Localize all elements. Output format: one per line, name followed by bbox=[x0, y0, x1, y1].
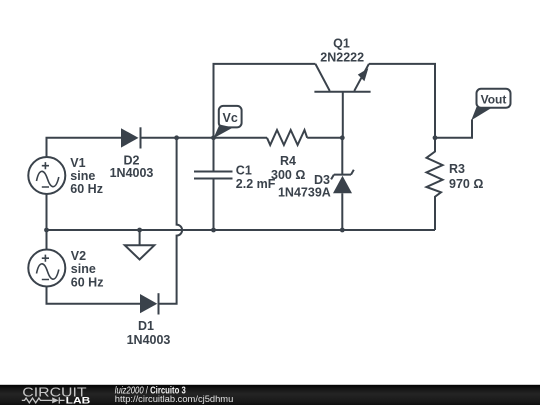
svg-text:60 Hz: 60 Hz bbox=[71, 276, 104, 290]
svg-text:1N4739A: 1N4739A bbox=[278, 186, 331, 200]
wire bottom rail bbox=[47, 229, 436, 231]
svg-text:60 Hz: 60 Hz bbox=[70, 182, 103, 196]
node dot D3 bottom bbox=[340, 228, 345, 233]
svg-text:LAB: LAB bbox=[66, 396, 91, 405]
Vc tag tail bbox=[214, 125, 234, 139]
resistor R3 bbox=[427, 138, 443, 230]
node dot Vc bbox=[211, 135, 216, 140]
svg-text:sine: sine bbox=[70, 169, 95, 183]
wire top rail right bbox=[369, 64, 435, 138]
transistor Q1 bbox=[314, 64, 370, 138]
svg-text:C1: C1 bbox=[236, 163, 252, 177]
node dot base bbox=[340, 135, 345, 140]
svg-text:2.2 mF: 2.2 mF bbox=[236, 177, 276, 191]
svg-text:300 Ω: 300 Ω bbox=[271, 168, 305, 182]
wire D3 column bbox=[341, 138, 343, 230]
svg-text:1N4003: 1N4003 bbox=[110, 166, 154, 180]
diode D2 bbox=[121, 128, 139, 147]
wire D1 cathode up with hop over rail bbox=[160, 138, 183, 304]
zener D3 bar bbox=[331, 170, 354, 180]
Vout tag tail bbox=[471, 107, 492, 120]
node dot C1 bottom bbox=[211, 228, 216, 233]
wire V1 top to D2 bbox=[47, 138, 122, 158]
wire Vout branch bbox=[435, 120, 472, 138]
svg-text:Vc: Vc bbox=[223, 111, 238, 125]
svg-text:Q1: Q1 bbox=[333, 37, 350, 51]
wire V2 bottom to D1 bbox=[47, 287, 141, 304]
diode D1 bbox=[140, 294, 157, 313]
svg-text:http://circuitlab.com/cj5dhmu: http://circuitlab.com/cj5dhmu bbox=[115, 393, 234, 404]
Vc tag box bbox=[219, 106, 242, 128]
svg-text:R4: R4 bbox=[280, 154, 296, 168]
source V1 bbox=[28, 157, 65, 194]
wire D2 cathode to R4 bbox=[141, 137, 268, 139]
footer title bbox=[115, 385, 186, 396]
svg-text:970 Ω: 970 Ω bbox=[449, 177, 483, 191]
svg-text:D1: D1 bbox=[138, 319, 154, 333]
source V2 bbox=[28, 250, 65, 287]
zener D3 triangle bbox=[333, 176, 352, 193]
svg-text:V1: V1 bbox=[70, 156, 85, 170]
svg-text:V2: V2 bbox=[71, 249, 86, 263]
node dot Vout bbox=[433, 135, 438, 140]
resistor R4 bbox=[267, 130, 307, 145]
svg-text:sine: sine bbox=[71, 262, 96, 276]
svg-text:Vout: Vout bbox=[481, 93, 507, 107]
Q1 emitter arrow bbox=[358, 68, 369, 81]
svg-text:R3: R3 bbox=[449, 162, 465, 176]
wire V1 bottom bbox=[46, 194, 48, 250]
node dot V1V2 bbox=[44, 228, 49, 233]
logo squiggle wire bbox=[22, 397, 65, 403]
footer bar bbox=[0, 385, 540, 405]
Vout tag box bbox=[477, 89, 511, 108]
wire top rail left bbox=[214, 64, 316, 138]
node dot D2 out bbox=[174, 135, 179, 140]
svg-text:2N2222: 2N2222 bbox=[320, 51, 364, 65]
wire R4 to D3 node bbox=[307, 137, 342, 139]
logo diode glyph bbox=[52, 397, 59, 403]
svg-text:1N4003: 1N4003 bbox=[127, 333, 171, 347]
node dot ground bbox=[137, 228, 142, 233]
capacitor C1 bbox=[194, 172, 233, 179]
wire C1 column bbox=[213, 138, 215, 230]
ground bbox=[125, 230, 155, 260]
